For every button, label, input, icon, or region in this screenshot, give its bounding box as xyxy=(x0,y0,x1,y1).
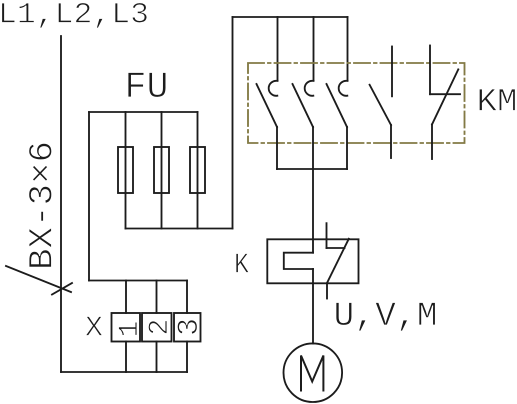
terminal X:2 box xyxy=(142,313,172,342)
wire fuse 3 lead xyxy=(197,112,199,229)
terminal X:1 box xyxy=(112,313,141,342)
wire terminal 2 upper lead xyxy=(156,281,158,314)
wire fuse 1 lead xyxy=(125,112,127,229)
wire L1 feeder vertical xyxy=(60,36,62,372)
fuse FU3 body xyxy=(190,147,205,193)
KM aux NC contact blade xyxy=(432,69,458,124)
svg-text:X: X xyxy=(85,312,103,345)
wire center phase down to relay xyxy=(312,127,314,253)
wire fuse 2 lead xyxy=(161,112,163,229)
wire KM phase 3 drop xyxy=(347,17,349,81)
svg-text:BX-3×6: BX-3×6 xyxy=(25,141,63,270)
wire FU left drop xyxy=(88,112,90,281)
thermal relay K stub horizontal xyxy=(327,247,345,249)
KM main contact 3 lower lead xyxy=(346,127,348,169)
thermal relay K lower stub xyxy=(326,283,328,298)
thermal relay K heater zigzag xyxy=(284,253,313,269)
KM aux NC contact lower lead xyxy=(431,125,433,160)
wire terminal 3 lower lead xyxy=(186,342,188,373)
KM aux NO contact lower lead xyxy=(390,125,392,158)
thermal relay K trip slash xyxy=(327,239,349,283)
KM main contact 3 moving blade xyxy=(327,84,348,127)
KM aux NC contact upper lead xyxy=(429,46,431,95)
fuse FU2 body xyxy=(154,147,169,193)
wire KM phase 1 drop xyxy=(277,17,279,81)
KM main contact 1 lower lead xyxy=(276,127,278,169)
KM main contact 2 moving blade xyxy=(293,84,314,127)
thermal relay K upper stub xyxy=(326,223,328,248)
motor M circle xyxy=(284,343,343,402)
wire terminal 1 lower lead xyxy=(125,342,127,373)
KM aux NO contact blade xyxy=(370,85,391,125)
wire horizontal to terminals xyxy=(89,280,187,282)
svg-text:3: 3 xyxy=(173,318,207,336)
wire top bus xyxy=(233,16,348,18)
wire FU bottom bus xyxy=(126,228,233,230)
KM aux NC contact hook xyxy=(430,93,460,95)
cable marker tick xyxy=(52,283,72,295)
wire bottom return horizontal xyxy=(61,371,187,373)
thermal relay K body xyxy=(267,239,358,283)
contactor KM boundary box xyxy=(248,63,465,143)
wire relay to motor xyxy=(312,269,314,344)
svg-text:U,V,M: U,V,M xyxy=(334,297,438,336)
KM main contact 2 arc xyxy=(305,81,314,96)
wire KM contacts bottom bus xyxy=(277,168,347,170)
wire FU top bus xyxy=(89,111,198,113)
wire terminal 3 upper lead xyxy=(186,281,188,314)
fuse FU1 body xyxy=(118,147,133,193)
KM main contact 1 arc xyxy=(269,81,278,96)
KM aux NO contact upper lead xyxy=(391,47,393,97)
KM main contact 1 moving blade xyxy=(257,84,278,127)
wire terminal 2 lower lead xyxy=(156,342,158,373)
terminal X:3 box xyxy=(174,313,201,342)
svg-text:L1,L2,L3: L1,L2,L3 xyxy=(0,0,149,32)
motor letter M xyxy=(301,356,323,391)
svg-text:KM: KM xyxy=(477,84,517,121)
KM main contact 3 arc xyxy=(339,81,348,96)
wire terminal 1 upper lead xyxy=(125,281,127,314)
cable marker leader slash xyxy=(6,266,71,292)
wire KM phase 2 drop xyxy=(313,17,315,81)
wire riser from top bus to FU bottom bus xyxy=(232,17,234,229)
svg-text:FU: FU xyxy=(125,67,169,109)
svg-text:K: K xyxy=(234,249,250,282)
svg-text:2: 2 xyxy=(145,319,176,336)
